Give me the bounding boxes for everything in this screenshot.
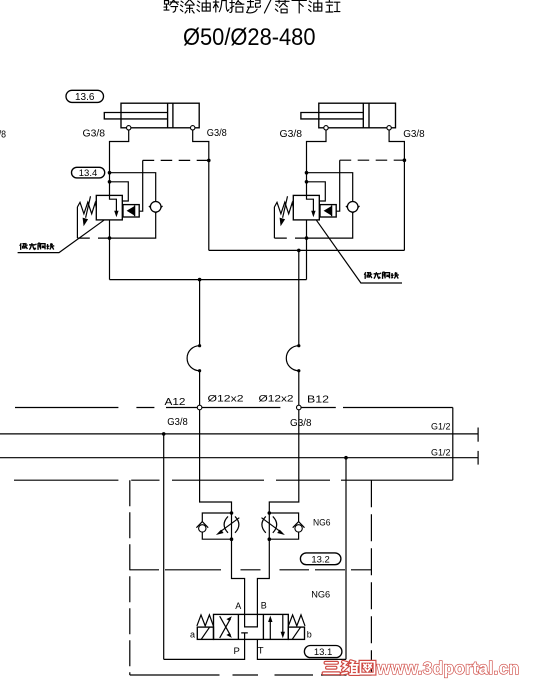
node B drop junction <box>297 249 301 253</box>
wire B step to valve <box>257 539 269 614</box>
bubble 13.1 <box>304 646 342 658</box>
port A12 circle <box>197 405 202 410</box>
directional valve DV1 body <box>214 614 289 639</box>
svg-text:NG6: NG6 <box>313 517 331 528</box>
THROTTLES <box>196 511 341 614</box>
rail T (G1/2) <box>0 457 478 459</box>
valve V1 adjust arrow <box>86 196 91 218</box>
wire T drop <box>345 458 347 660</box>
node F2 top <box>268 511 272 515</box>
wire pilot line into valve side <box>307 182 326 201</box>
manifold plate bottom boundary (dashed) <box>14 479 453 481</box>
svg-text:A: A <box>235 601 241 611</box>
node bypass joins rod-side line <box>207 159 211 163</box>
char / (slash) <box>264 0 271 13</box>
valve V1 spring anchor line <box>76 207 78 238</box>
F2 throttle arcs <box>262 516 277 532</box>
svg-text:13.4: 13.4 <box>79 168 98 179</box>
svg-text:B12: B12 <box>307 394 329 406</box>
F2 line through <box>268 513 270 539</box>
check valve B1 poppet <box>127 206 135 216</box>
svg-text:G3/8: G3/8 <box>83 128 106 140</box>
counterbalance valve V1 body <box>96 195 122 220</box>
wire B drop lower <box>298 371 300 406</box>
F1 check seat <box>196 522 208 528</box>
bubble 13.2 <box>300 553 341 565</box>
cylinder CYL1 body <box>121 103 199 128</box>
svg-text:A12: A12 <box>165 396 186 408</box>
DV1 right box parallel arrows <box>270 614 283 639</box>
F2 check circle <box>295 525 302 532</box>
svg-text:13.6: 13.6 <box>75 92 95 103</box>
check valve box B2 <box>320 205 336 217</box>
bubble 13.4 <box>72 167 105 178</box>
svg-text:G3/8: G3/8 <box>167 417 188 428</box>
node F1 top <box>230 511 234 515</box>
cylinder CYL1 piston <box>168 103 173 128</box>
char 油 <box>309 0 322 12</box>
svg-text:P: P <box>234 646 240 657</box>
F1 arrow <box>220 518 240 533</box>
svg-text:www.3dportal.cn: www.3dportal.cn <box>376 658 519 678</box>
node main/pilot-branch upper <box>108 171 112 175</box>
check valve box B1 <box>123 205 139 217</box>
cylinder CYL2 port left <box>324 126 328 130</box>
rail P (G1/2) <box>0 433 478 435</box>
cylinder CYL2 port right <box>387 126 391 130</box>
wire below check circle back to main <box>110 212 156 238</box>
svg-text:G3/8: G3/8 <box>0 128 6 140</box>
check valve V1C seat <box>149 206 163 213</box>
wire main through valve down <box>109 220 111 280</box>
wire cyl1 right port down and right <box>193 130 209 250</box>
label 做成阀块 right (hand-drawn CJK) <box>364 272 398 279</box>
RIGHT VALVE <box>274 130 406 283</box>
svg-text:G3/8: G3/8 <box>290 418 312 429</box>
svg-text:Ø12x2: Ø12x2 <box>259 394 294 404</box>
label 做成阀块 left (hand-drawn CJK) <box>20 243 54 250</box>
char 跨 <box>164 0 179 12</box>
DV1 left box crossed arrows <box>220 616 231 638</box>
hose A (flexible) <box>187 346 200 371</box>
wire P drop <box>163 434 165 660</box>
manifold bottom dashed <box>130 674 372 676</box>
cylinder CYL1 port left <box>127 126 131 130</box>
svg-text:G3/8: G3/8 <box>403 128 425 140</box>
char 机 <box>213 0 229 12</box>
wire T stem <box>257 639 346 659</box>
DV1 solenoid a <box>197 627 213 639</box>
node bypass joins rod-side line <box>403 158 407 162</box>
svg-text:G3/8: G3/8 <box>280 128 303 140</box>
svg-text:G3/8: G3/8 <box>207 127 227 139</box>
svg-text:b: b <box>307 630 312 640</box>
cylinder CYL2 piston <box>363 103 369 128</box>
wire cyl2 left port down to main line <box>307 130 327 195</box>
DV1 solenoid b <box>288 627 304 639</box>
manifold 13.2/13.1 right dashed edge <box>370 480 372 675</box>
node main/pilot-branch upper <box>305 171 309 175</box>
wire below check circle back to main <box>307 212 353 238</box>
char 落 <box>275 0 289 13</box>
DV1 centre box blocked P <box>241 633 248 640</box>
throttle-check valve F1 frame <box>202 513 231 539</box>
valve V2 internal flow arrow <box>307 195 314 212</box>
port B12 circle <box>297 405 302 410</box>
node F2 bottom <box>268 537 272 541</box>
wire A step to valve <box>232 539 245 614</box>
DV1 centre box A-B link <box>245 614 258 627</box>
valve V1 internal flow arrow <box>110 195 117 212</box>
F1 check circle <box>199 525 206 532</box>
title text line1: 跨涂油机抬起/落下油缸 (hand-drawn CJK strokes) <box>164 0 340 13</box>
wire A drop upper <box>199 280 201 346</box>
char 抬 <box>230 0 244 13</box>
wire rod-side collector line <box>209 249 405 251</box>
check valve V2C seat <box>346 206 360 213</box>
throttle-check valve F2 frame <box>269 513 298 539</box>
DV1 spring b <box>288 615 305 626</box>
svg-text:T: T <box>258 645 264 656</box>
wire bypass dashed <box>340 159 405 161</box>
node T drop <box>344 456 348 460</box>
wire bypass from check box up <box>336 160 340 211</box>
hose B (flexible) <box>286 346 299 371</box>
node valve outlet junction <box>108 236 112 240</box>
rail T end tick <box>477 451 479 465</box>
manifold divider dashed (13.2 bottom) <box>130 569 372 571</box>
manifold plate top boundary (dashed) <box>15 407 453 409</box>
DV1 spring a <box>197 615 214 626</box>
char 下 <box>292 0 306 13</box>
F2 check seat <box>293 522 305 528</box>
counterbalance valve V2 body <box>293 195 319 220</box>
node main/pilot-branch lower <box>108 180 112 184</box>
char 缸 <box>326 0 340 12</box>
manifold plate right edge <box>452 408 454 481</box>
PLATE <box>0 405 478 675</box>
node valve outlet junction <box>305 236 309 240</box>
leader line valve block label <box>18 220 104 252</box>
node P drop <box>162 432 166 436</box>
char 涂 <box>180 0 194 13</box>
MIDDLE <box>110 249 405 408</box>
watermark 三维网 (outlined red CJK) <box>324 661 375 674</box>
wire bypass dashed <box>143 159 209 161</box>
svg-text:Ø50/Ø28-480: Ø50/Ø28-480 <box>183 24 316 51</box>
valve V1 spring <box>77 202 96 214</box>
node main/pilot-branch lower <box>305 180 309 184</box>
wire cyl1 left port down to main line <box>110 130 129 195</box>
check valve V1C circle <box>150 202 161 213</box>
manifold 13.2/13.1 left dashed edge <box>129 480 131 675</box>
wire main through valve down <box>306 220 308 280</box>
WATERMARK <box>324 658 520 678</box>
F1 throttle arcs <box>224 516 239 532</box>
F2 arrow <box>262 518 282 533</box>
F1 line through <box>231 513 233 539</box>
svg-text:13.1: 13.1 <box>314 647 333 658</box>
valve block dashed enclosure bottom <box>77 237 109 239</box>
CYLINDERS <box>0 90 425 140</box>
wire cap-side collector rail <box>110 279 307 281</box>
valve V2 spring anchor line <box>273 207 275 238</box>
TITLE <box>164 0 340 51</box>
wire branch to check circle V1C <box>110 173 156 202</box>
leader line valve block label <box>316 220 402 283</box>
wire cyl2 right port down and right <box>389 130 404 250</box>
char 油 <box>197 0 210 12</box>
wire pilot line into valve side <box>110 182 129 201</box>
svg-text:a: a <box>190 630 195 640</box>
svg-text:13.2: 13.2 <box>311 554 330 565</box>
DIRVALVE <box>164 590 346 660</box>
cylinder CYL1 rod <box>104 113 167 119</box>
wire A drop lower <box>199 371 201 406</box>
wire A into plate <box>200 410 232 513</box>
wire B into plate <box>269 410 299 513</box>
svg-text:G1/2: G1/2 <box>431 422 451 432</box>
char 起 <box>247 0 261 13</box>
wire bypass from check box up <box>139 160 143 211</box>
cylinder CYL1 port right <box>191 126 195 130</box>
valve V2 spring <box>274 202 293 214</box>
wire B drop upper <box>298 250 300 345</box>
rail P end tick <box>477 428 479 442</box>
cylinder CYL2 body <box>319 103 396 128</box>
LEFT VALVE <box>18 130 211 280</box>
check valve V2C circle <box>347 202 358 213</box>
svg-text:G1/2: G1/2 <box>431 448 451 458</box>
svg-text:NG6: NG6 <box>311 590 330 601</box>
wire branch to check circle V2C <box>307 173 353 202</box>
node A drop junction <box>198 278 202 282</box>
valve block dashed enclosure bottom <box>274 237 306 239</box>
cylinder CYL2 rod <box>301 113 363 119</box>
svg-text:Ø12x2: Ø12x2 <box>208 394 244 404</box>
wire P stem <box>164 639 245 659</box>
check valve B2 poppet <box>324 206 332 216</box>
svg-text:B: B <box>261 601 267 611</box>
bubble 13.6 <box>66 90 104 102</box>
valve V2 adjust arrow <box>283 196 288 218</box>
node F1 bottom <box>230 537 234 541</box>
